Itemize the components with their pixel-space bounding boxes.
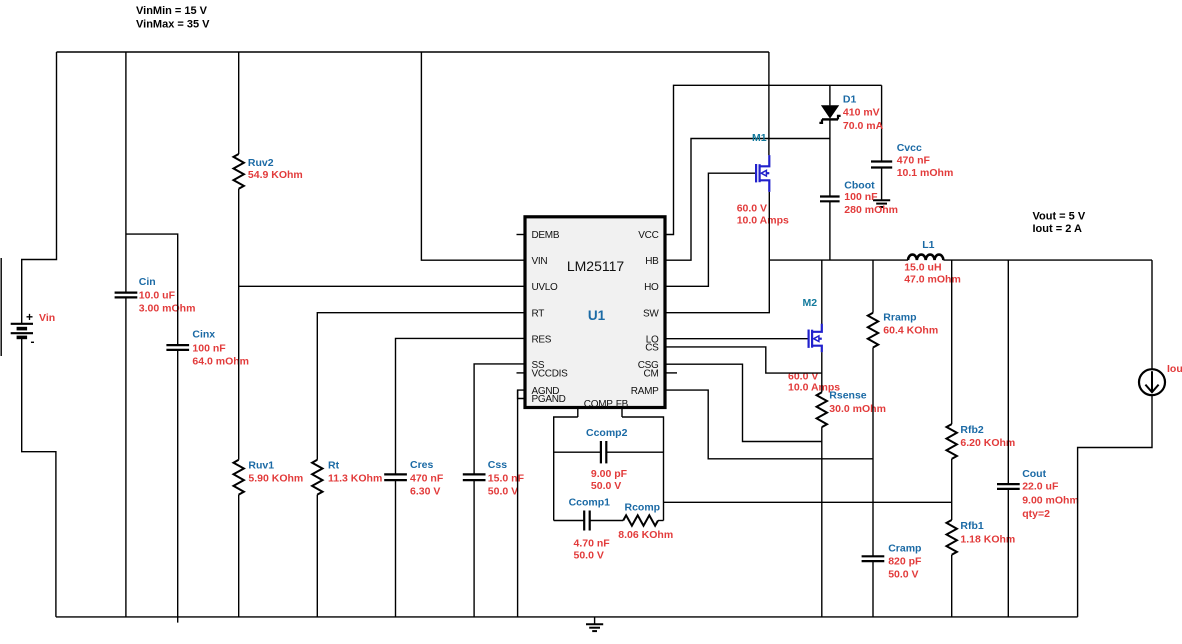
wire HO net bbox=[665, 173, 756, 286]
svg-text:RT: RT bbox=[532, 308, 545, 319]
svg-text:5.90 KOhm: 5.90 KOhm bbox=[248, 472, 303, 484]
svg-text:PGAND: PGAND bbox=[532, 394, 566, 405]
wire comp box top-right bbox=[622, 417, 664, 521]
pin stub VCCDIS bbox=[517, 372, 526, 374]
ground symbol main bbox=[586, 617, 603, 631]
svg-text:30.0 mOhm: 30.0 mOhm bbox=[829, 403, 886, 415]
svg-text:8.06 KOhm: 8.06 KOhm bbox=[618, 529, 673, 541]
wire Rfb middle node bbox=[951, 459, 953, 520]
diode D1 (schottky) bbox=[819, 94, 883, 132]
wire Cvcc lower bbox=[881, 168, 883, 200]
wire Rfb1 lower bbox=[951, 555, 953, 617]
wire Rramp lower to Cramp bbox=[872, 348, 874, 556]
current source Iout bbox=[1139, 363, 1182, 395]
wire output bus right bbox=[943, 259, 1152, 261]
capacitor Css bbox=[463, 459, 525, 498]
svg-text:Rt: Rt bbox=[328, 459, 340, 471]
svg-text:SW: SW bbox=[643, 308, 659, 319]
svg-text:15.0 uH: 15.0 uH bbox=[904, 261, 941, 273]
wire Cinx branch upper bbox=[126, 234, 178, 345]
capacitor Cvcc bbox=[871, 142, 953, 179]
wire SW output bus left bbox=[769, 259, 908, 261]
wire Cinx branch lower bbox=[177, 350, 179, 622]
resistor Rsense bbox=[817, 390, 886, 427]
svg-text:50.0 V: 50.0 V bbox=[488, 486, 518, 498]
wire top input bus bbox=[57, 51, 769, 53]
annotation VinMin/VinMax bbox=[136, 5, 210, 31]
svg-text:LM25117: LM25117 bbox=[567, 258, 625, 274]
svg-text:VCCDIS: VCCDIS bbox=[532, 369, 569, 380]
svg-text:-: - bbox=[31, 335, 35, 349]
svg-text:qty=2: qty=2 bbox=[1022, 508, 1050, 520]
svg-text:+: + bbox=[26, 310, 33, 324]
svg-text:M1: M1 bbox=[752, 132, 767, 144]
wire Cout lower bbox=[1007, 489, 1009, 617]
svg-text:70.0 mA: 70.0 mA bbox=[843, 120, 884, 132]
wire VIN net bbox=[421, 52, 525, 260]
wire RAMP net bbox=[665, 390, 873, 459]
svg-text:15.0 nF: 15.0 nF bbox=[488, 473, 525, 485]
svg-text:U1: U1 bbox=[588, 308, 606, 323]
svg-text:VCC: VCC bbox=[638, 230, 658, 241]
wire RES net bbox=[396, 338, 526, 474]
wire Cres lower bbox=[395, 481, 397, 617]
wire D1 cathode to Cboot bbox=[829, 119, 831, 196]
capacitor Ccomp2 bbox=[586, 427, 628, 492]
wire HB net bbox=[665, 139, 830, 261]
wire Ruv bus middle bbox=[238, 189, 240, 460]
svg-text:L1: L1 bbox=[922, 239, 934, 251]
wire Cout upper from output bus bbox=[1007, 260, 1009, 484]
svg-text:100 nF: 100 nF bbox=[844, 191, 878, 203]
svg-text:280 mOhm: 280 mOhm bbox=[844, 204, 898, 216]
svg-text:410 mV: 410 mV bbox=[843, 107, 880, 119]
svg-text:10.0 Amps: 10.0 Amps bbox=[737, 214, 789, 226]
svg-text:Ccomp2: Ccomp2 bbox=[586, 427, 628, 439]
wire AGND/PGAND tie bbox=[518, 390, 525, 398]
pin stub COMP bbox=[577, 408, 579, 418]
svg-text:54.9 KOhm: 54.9 KOhm bbox=[248, 169, 303, 181]
svg-text:9.00 pF: 9.00 pF bbox=[591, 468, 628, 480]
wire M1 drain from top bus bbox=[768, 52, 770, 155]
ground symbol Cvcc bbox=[873, 200, 890, 207]
svg-text:VinMin = 15 V: VinMin = 15 V bbox=[136, 5, 208, 17]
wire left source upper leg bbox=[22, 52, 57, 324]
wire Rfb2 upper from output bus bbox=[951, 260, 953, 424]
wire FB feedback net bbox=[664, 501, 952, 503]
resistor Rramp bbox=[868, 311, 938, 347]
svg-text:Rsense: Rsense bbox=[829, 390, 867, 402]
wire SS net bbox=[474, 364, 525, 474]
svg-text:Ruv2: Ruv2 bbox=[248, 157, 274, 169]
wire M2 source to Rsense bbox=[821, 352, 823, 392]
wire Cin branch lower bbox=[125, 298, 127, 617]
svg-text:Ruv1: Ruv1 bbox=[248, 459, 274, 471]
svg-text:VIN: VIN bbox=[532, 256, 548, 267]
svg-text:HO: HO bbox=[644, 282, 659, 293]
svg-text:Rfb2: Rfb2 bbox=[960, 424, 983, 436]
resistor Rfb2 bbox=[947, 424, 1016, 459]
svg-text:50.0 V: 50.0 V bbox=[574, 549, 604, 561]
wire comp box top-left bbox=[554, 417, 578, 521]
wire Cboot lower to SW bus bbox=[829, 202, 831, 260]
svg-text:4.70 nF: 4.70 nF bbox=[574, 538, 611, 550]
wire Ruv bus upper bbox=[238, 52, 240, 154]
wire RT net bbox=[317, 313, 525, 460]
svg-text:Cramp: Cramp bbox=[888, 542, 921, 554]
svg-text:Css: Css bbox=[488, 459, 507, 471]
svg-text:Rfb1: Rfb1 bbox=[960, 520, 983, 532]
wire comp box middle left bbox=[554, 451, 601, 453]
pin stub CM bbox=[665, 372, 677, 374]
svg-text:11.3 KOhm: 11.3 KOhm bbox=[328, 472, 382, 484]
capacitor Cin bbox=[115, 276, 196, 315]
resistor Rfb1 bbox=[947, 520, 1016, 555]
svg-text:100 nF: 100 nF bbox=[192, 343, 226, 355]
capacitor Cboot bbox=[820, 180, 898, 217]
svg-text:60.4 KOhm: 60.4 KOhm bbox=[883, 325, 938, 337]
wire AGND ground drop bbox=[517, 390, 519, 617]
svg-text:Cout: Cout bbox=[1022, 468, 1046, 480]
pin stub FB bbox=[621, 408, 623, 418]
transistor M1 bbox=[737, 132, 789, 227]
capacitor Cout bbox=[997, 468, 1079, 520]
wire CS net bbox=[665, 347, 822, 373]
wire Iout loop upper bbox=[1151, 260, 1153, 369]
svg-text:Iout: Iout bbox=[1167, 363, 1182, 375]
wire M2 drain from SW bus bbox=[821, 260, 823, 324]
svg-text:1.18 KOhm: 1.18 KOhm bbox=[960, 534, 1015, 546]
svg-text:Cin: Cin bbox=[139, 276, 156, 288]
svg-text:22.0 uF: 22.0 uF bbox=[1022, 480, 1059, 492]
resistor Ruv1 bbox=[234, 459, 304, 494]
svg-text:6.30 V: 6.30 V bbox=[410, 486, 440, 498]
annotation Vout/Iout bbox=[1033, 210, 1086, 235]
wire Cramp lower bbox=[872, 562, 874, 617]
wire Cin branch upper bbox=[125, 52, 127, 292]
svg-text:RES: RES bbox=[532, 334, 552, 345]
wire left source lower leg bbox=[22, 339, 56, 617]
wire comp box bottom right bbox=[658, 520, 664, 522]
wire comp box bottom left bbox=[554, 520, 584, 522]
resistor Rcomp bbox=[618, 502, 673, 541]
svg-text:UVLO: UVLO bbox=[532, 282, 559, 293]
transistor M2 bbox=[788, 297, 840, 393]
wire D1 anode drop bbox=[829, 85, 831, 105]
svg-text:470 nF: 470 nF bbox=[410, 473, 444, 485]
svg-text:RAMP: RAMP bbox=[631, 386, 659, 397]
wire Rramp upper from SW bus bbox=[872, 260, 874, 313]
svg-text:64.0 mOhm: 64.0 mOhm bbox=[192, 356, 249, 368]
svg-text:CM: CM bbox=[644, 369, 659, 380]
op-amp U1 LM25117 IC body bbox=[525, 217, 665, 408]
svg-text:Cres: Cres bbox=[410, 459, 434, 471]
wire Css lower bbox=[473, 481, 475, 617]
svg-text:6.20 KOhm: 6.20 KOhm bbox=[960, 437, 1015, 449]
capacitor Cramp bbox=[862, 542, 922, 580]
svg-text:Rramp: Rramp bbox=[883, 311, 916, 323]
wire Ruv bus lower bbox=[238, 495, 240, 617]
svg-text:470 nF: 470 nF bbox=[897, 154, 931, 166]
svg-text:Ccomp1: Ccomp1 bbox=[569, 497, 611, 509]
wire clipped left edge segment bbox=[0, 258, 2, 356]
resistor Rt bbox=[312, 459, 382, 494]
inductor L1 bbox=[904, 239, 961, 285]
capacitor Cres bbox=[384, 459, 444, 498]
svg-text:10.1 mOhm: 10.1 mOhm bbox=[897, 167, 954, 179]
wire UVLO net bbox=[239, 285, 525, 287]
svg-text:820 pF: 820 pF bbox=[888, 555, 922, 567]
svg-text:COMP: COMP bbox=[584, 399, 613, 410]
svg-text:9.00 mOhm: 9.00 mOhm bbox=[1022, 494, 1079, 506]
svg-text:50.0 V: 50.0 V bbox=[888, 568, 918, 580]
wire M1 source / SW pin net bbox=[665, 192, 769, 313]
wire Cvcc upper bbox=[881, 85, 883, 161]
wire LO net to M2 gate bbox=[665, 338, 808, 340]
capacitor Cinx bbox=[166, 329, 249, 368]
svg-text:50.0 V: 50.0 V bbox=[591, 480, 621, 492]
wire comp box bottom middle bbox=[590, 520, 623, 522]
pin stub DEMB bbox=[517, 234, 526, 236]
svg-text:Vout = 5 V: Vout = 5 V bbox=[1033, 210, 1086, 222]
wire Rt lower bbox=[316, 495, 318, 617]
svg-text:DEMB: DEMB bbox=[532, 230, 560, 241]
wire bottom ground bus bbox=[56, 616, 1078, 618]
svg-text:M2: M2 bbox=[803, 297, 818, 309]
svg-text:CS: CS bbox=[645, 343, 659, 354]
svg-text:HB: HB bbox=[645, 256, 659, 267]
svg-text:60.0 V: 60.0 V bbox=[737, 202, 767, 214]
resistor Ruv2 bbox=[234, 154, 303, 189]
svg-text:D1: D1 bbox=[843, 94, 857, 106]
battery V1 Vin bbox=[11, 310, 35, 349]
wire CSG net bbox=[665, 364, 822, 441]
svg-text:3.00 mOhm: 3.00 mOhm bbox=[139, 303, 196, 315]
wire VCC net bbox=[665, 85, 882, 234]
svg-text:Rcomp: Rcomp bbox=[625, 502, 661, 514]
svg-text:Vin: Vin bbox=[39, 312, 55, 324]
capacitor Ccomp1 bbox=[569, 497, 611, 562]
wire Rsense lower to ground bus bbox=[821, 427, 823, 617]
svg-text:Iout = 2 A: Iout = 2 A bbox=[1033, 223, 1082, 235]
svg-text:VinMax = 35 V: VinMax = 35 V bbox=[136, 18, 210, 30]
wire Iout loop lower bbox=[1078, 395, 1152, 617]
svg-text:Cvcc: Cvcc bbox=[897, 142, 922, 154]
svg-text:Cinx: Cinx bbox=[192, 329, 215, 341]
svg-text:Cboot: Cboot bbox=[844, 180, 875, 192]
wire comp box middle right bbox=[607, 451, 664, 453]
svg-text:10.0 uF: 10.0 uF bbox=[139, 289, 176, 301]
